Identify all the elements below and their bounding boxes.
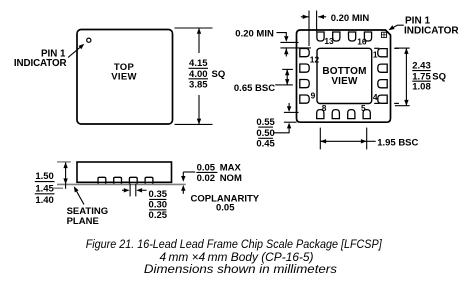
- dimension extension line top (top view height): [175, 27, 213, 29]
- fraction rule under 4.00: [189, 78, 209, 80]
- svg-text:0.55: 0.55: [256, 117, 275, 128]
- pad 11 (left column): [300, 64, 309, 72]
- pad 2 (right column): [378, 64, 387, 72]
- svg-text:1.40: 1.40: [35, 195, 54, 206]
- dimension line upper segment with arrow (4.00 SQ): [197, 28, 201, 53]
- pin 1 indicator circle on top view: [87, 38, 91, 42]
- fraction rule under 1.45: [35, 193, 55, 195]
- dashed projection line through pad 4 (exposed pad bottom edge): [374, 102, 399, 104]
- extension line pad 10 center (0.65 BSC): [282, 84, 293, 86]
- double arrow (0.65 BSC): [285, 69, 289, 85]
- pad 9 (left column): [300, 95, 309, 103]
- arrow left toward terminal (0.30): [136, 188, 146, 192]
- dimension value 0.02 NOM: [197, 173, 242, 184]
- arrow right (top 0.20 MIN): [318, 15, 326, 19]
- side view body outline: [77, 162, 172, 182]
- svg-text:Figure 21. 16-Lead Lead Frame: Figure 21. 16-Lead Lead Frame Chip Scale…: [86, 237, 383, 251]
- extension line pad-13 edge (top 0.20 MIN): [316, 11, 318, 32]
- svg-text:4.15: 4.15: [189, 58, 208, 69]
- fraction rule under 1.50: [35, 181, 55, 183]
- svg-text:9: 9: [311, 90, 316, 100]
- label PIN 1 INDICATOR (bottom view): [404, 16, 459, 37]
- label TOP VIEW: [111, 62, 136, 83]
- pad 12 (left column): [300, 49, 309, 57]
- dashed projection line through pad 1 (exposed pad top edge): [374, 47, 399, 49]
- svg-text:16: 16: [357, 37, 367, 47]
- extension line exposed pad top (right dim): [395, 47, 410, 49]
- svg-text:0.20 MIN: 0.20 MIN: [331, 13, 370, 24]
- dimension line with arrows (1.95 BSC): [320, 139, 375, 143]
- pad 7 (bottom row): [332, 110, 339, 119]
- pin 1 indicator hatched square (bottom view): [381, 32, 386, 37]
- svg-text:8: 8: [322, 103, 327, 113]
- svg-text:1.50: 1.50: [35, 171, 54, 182]
- fraction rule under 0.05: [196, 171, 217, 173]
- svg-text:5: 5: [361, 103, 366, 113]
- svg-text:0.05: 0.05: [197, 162, 216, 173]
- dimension line lower segment with arrow (4.00 SQ): [197, 95, 201, 124]
- svg-text:INDICATOR: INDICATOR: [404, 26, 459, 37]
- fraction rule under 1.75: [412, 80, 431, 82]
- svg-text:0.25: 0.25: [149, 210, 168, 221]
- svg-text:0.45: 0.45: [256, 138, 275, 149]
- bottom view body outline with chamfered pin-1 corner: [297, 30, 391, 122]
- side view terminal 2: [114, 177, 122, 184]
- fraction rule under 0.30: [149, 209, 166, 211]
- svg-text:INDICATOR: INDICATOR: [14, 58, 67, 69]
- arrow left (top 0.20 MIN): [301, 15, 309, 19]
- arrow up from below (left 0.20 MIN): [284, 48, 288, 56]
- seating plane line: [57, 183, 186, 185]
- svg-text:0.20 MIN: 0.20 MIN: [235, 29, 274, 40]
- svg-text:0.35: 0.35: [149, 189, 168, 200]
- arrow down to pad top edge (0.50): [287, 103, 291, 112]
- extension line pad 8 center (1.95 BSC): [319, 128, 321, 150]
- dimension value 1.75 SQ: [412, 71, 446, 82]
- svg-text:1.95 BSC: 1.95 BSC: [377, 137, 418, 148]
- extension line body top (gray): [57, 161, 71, 163]
- dimension extension line bottom (top view height): [175, 123, 213, 125]
- extension line bottom pads top edge: [284, 111, 299, 113]
- leader stub from 1.45 to seating plane: [53, 187, 64, 189]
- fraction rule under 0.35: [149, 198, 166, 200]
- extension line pad 12 top edge: [280, 47, 311, 49]
- pad 6 (bottom row): [348, 110, 355, 119]
- arrow right toward terminal (0.30): [122, 188, 130, 192]
- leader arrow to pin 1 circle (top view): [68, 44, 84, 58]
- double arrow body height (1.50): [63, 162, 67, 189]
- extension line terminal 3 left edge: [129, 184, 131, 197]
- pad 15 (top row): [349, 32, 356, 41]
- pad 10 (left column): [300, 80, 309, 88]
- arrow up to seating plane (0.05 MAX): [181, 185, 185, 194]
- extension line pad-12 edge (top 0.20 MIN): [308, 11, 310, 47]
- fraction rule under 0.55: [258, 126, 273, 128]
- svg-text:SQ: SQ: [432, 71, 446, 82]
- leader with down arrow (0.05 MAX): [181, 172, 195, 182]
- exposed pad inner square: [317, 48, 372, 103]
- svg-text:1.45: 1.45: [35, 183, 54, 194]
- dimension value 4.00 SQ: [189, 69, 225, 80]
- svg-text:0.30: 0.30: [149, 200, 168, 211]
- leader line (left 0.20 MIN): [277, 33, 289, 42]
- extension line pad 11 center (0.65 BSC): [282, 68, 293, 70]
- leader line (0.65 BSC): [275, 84, 282, 86]
- side view terminal 1: [98, 177, 106, 184]
- svg-text:PLANE: PLANE: [67, 216, 99, 227]
- svg-text:VIEW: VIEW: [331, 76, 358, 87]
- extension line package bottom edge (left of body): [284, 121, 297, 123]
- svg-text:Dimensions shown in millimeter: Dimensions shown in millimeters: [144, 262, 337, 276]
- extension line exposed pad bottom (right dim): [395, 105, 410, 107]
- svg-text:13: 13: [324, 36, 334, 46]
- svg-text:NOM: NOM: [220, 173, 242, 184]
- leader arrow to pin 1 chamfer corner: [389, 25, 404, 30]
- pad 3 (right column): [378, 80, 387, 88]
- label COPLANARITY 0.05: [191, 193, 260, 213]
- fraction rule under 0.50: [258, 137, 273, 139]
- extension line terminal 3 right edge: [135, 184, 137, 197]
- fraction rule under 4.15: [189, 67, 209, 69]
- dimension value 0.05 MAX: [197, 162, 242, 173]
- pad 14 (top row): [333, 32, 340, 41]
- svg-text:VIEW: VIEW: [111, 72, 136, 83]
- pad 1 (right column): [378, 49, 387, 57]
- side view terminal 4: [145, 177, 153, 184]
- fraction rule under 2.43: [412, 70, 431, 72]
- svg-text:1.08: 1.08: [412, 82, 431, 93]
- arrow from SEATING PLANE to seating line: [74, 186, 84, 204]
- pad 13 (top row): [317, 32, 324, 41]
- svg-text:0.02: 0.02: [197, 173, 216, 184]
- body bottom edge over terminals: [77, 181, 172, 183]
- side view terminal 3: [129, 177, 137, 184]
- extension line pads 13-16 bottom edge: [280, 41, 298, 43]
- pad 4 (right column): [378, 95, 387, 103]
- svg-text:3.85: 3.85: [189, 79, 208, 90]
- svg-text:1: 1: [373, 49, 378, 59]
- arrow up to package edge with leader (0.50): [274, 123, 291, 133]
- pad 5 (bottom row): [363, 110, 370, 119]
- label PIN 1 INDICATOR (top left): [14, 48, 67, 69]
- svg-text:MAX: MAX: [220, 162, 242, 173]
- svg-text:2.43: 2.43: [412, 61, 431, 72]
- svg-text:0.05: 0.05: [216, 203, 235, 214]
- svg-text:12: 12: [310, 54, 320, 64]
- pad 16 (top row): [364, 32, 371, 41]
- extension line pad 5 center (1.95 BSC): [366, 128, 368, 150]
- dimension line with arrows (exposed pad size): [404, 48, 408, 106]
- label BOTTOM VIEW: [322, 66, 366, 87]
- svg-text:0.65 BSC: 0.65 BSC: [234, 83, 275, 94]
- top view body outline: [77, 30, 173, 125]
- svg-text:SQ: SQ: [212, 69, 226, 80]
- svg-text:4: 4: [373, 92, 378, 102]
- label SEATING PLANE: [67, 206, 109, 227]
- pad 8 (bottom row): [317, 110, 324, 119]
